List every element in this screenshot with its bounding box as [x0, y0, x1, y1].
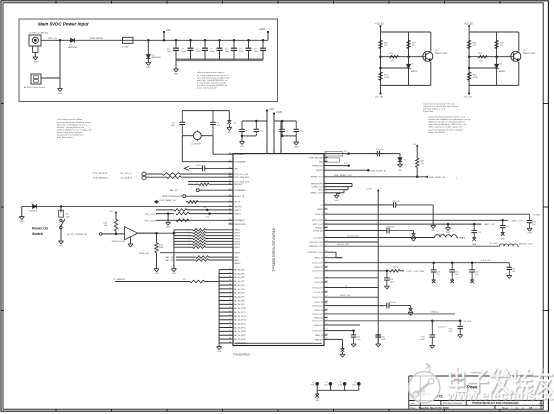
svg-text:LDO4_IN: LDO4_IN	[314, 292, 323, 294]
svg-text:45: 45	[229, 160, 231, 162]
svg-text:C16 1uF: C16 1uF	[392, 201, 400, 203]
svg-text:TP3: TP3	[203, 207, 206, 209]
svg-text:PWRPAD/GND: PWRPAD/GND	[235, 342, 249, 345]
svg-text:TP_WAKEUP: TP_WAKEUP	[113, 278, 126, 281]
svg-text:VMAIN: VMAIN	[459, 237, 466, 240]
svg-text:F1 3A: F1 3A	[123, 46, 129, 49]
svg-text:24: 24	[229, 322, 231, 324]
svg-text:power over targeted up there i: power over targeted up there is the data	[428, 128, 463, 131]
svg-text:+VDDQ_L: +VDDQ_L	[430, 311, 440, 313]
svg-text:R36: R36	[187, 247, 190, 249]
svg-text:VINLDO7: VINLDO7	[314, 325, 323, 327]
svg-text:D6: D6	[404, 159, 406, 161]
svg-text:LDO06_B2: LDO06_B2	[313, 230, 324, 232]
svg-text:GND: GND	[294, 146, 299, 148]
svg-text:R52 0: R52 0	[393, 267, 398, 269]
svg-text:ISET: ISET	[318, 190, 323, 192]
svg-text:on chip design. Note this, us: on chip design. Note this, usually	[197, 81, 226, 84]
svg-text:R31: R31	[187, 233, 190, 235]
svg-text:TP4: TP4	[206, 217, 209, 219]
svg-text:AD_IN_GP9: AD_IN_GP9	[234, 303, 244, 306]
svg-text:GND: GND	[154, 273, 159, 275]
svg-text:R32: R32	[187, 235, 190, 237]
svg-text:VDET1: VDET1	[234, 210, 241, 212]
svg-text:GND: GND	[446, 232, 451, 234]
svg-text:Sheet: Sheet	[502, 407, 508, 410]
svg-text:BAS16: BAS16	[411, 70, 418, 73]
svg-text:Date:: Date:	[411, 407, 417, 410]
svg-text:LDO7_OUT: LDO7_OUT	[312, 321, 323, 323]
svg-text:18: 18	[229, 299, 231, 301]
svg-text:29: 29	[229, 341, 231, 343]
svg-text:VINLDO: VINLDO	[315, 227, 323, 229]
svg-text:GND: GND	[501, 239, 506, 241]
svg-text:9: 9	[273, 151, 274, 153]
svg-text:GND: GND	[20, 221, 25, 223]
svg-text:C20: C20	[532, 222, 535, 224]
svg-text:GND: GND	[174, 73, 179, 75]
svg-text:C31: C31	[421, 337, 424, 339]
svg-text:LDO8_OUT: LDO8_OUT	[312, 331, 323, 333]
svg-text:VCC_B1: VCC_B1	[375, 97, 384, 99]
svg-text:17: 17	[229, 295, 231, 297]
svg-text:www.elecfans.com: www.elecfans.com	[446, 387, 554, 402]
svg-text:VINLDO2: VINLDO2	[314, 267, 323, 269]
svg-text:TP5: TP5	[344, 151, 347, 153]
svg-text:5VDC_IN: 5VDC_IN	[48, 38, 57, 40]
svg-text:ISINK2: ISINK2	[234, 263, 240, 265]
svg-text:C13: C13	[299, 130, 302, 132]
svg-text:AD_IN_GP17: AD_IN_GP17	[234, 334, 245, 337]
svg-text:LOWBMAIN: LOWBMAIN	[234, 189, 246, 192]
svg-text:TP6: TP6	[344, 163, 347, 165]
svg-text:GND: GND	[240, 146, 245, 148]
svg-text:21: 21	[229, 311, 231, 313]
svg-text:2: 2	[191, 188, 192, 190]
svg-text:+1.2V_O: +1.2V_O	[438, 327, 446, 329]
svg-text:Main 5VDC Power Input: Main 5VDC Power Input	[38, 22, 89, 27]
svg-text:PWRONSLEEP: PWRONSLEEP	[309, 157, 324, 159]
svg-text:C11: C11	[259, 130, 262, 132]
svg-text:GPIO5: GPIO5	[234, 241, 240, 243]
svg-text:R17: R17	[183, 279, 186, 281]
svg-text:10uF: 10uF	[239, 51, 244, 53]
svg-text:26: 26	[229, 330, 231, 332]
svg-text:WLED_FB: WLED_FB	[139, 253, 149, 255]
svg-text:SPACER: SPACER	[315, 338, 324, 341]
svg-text:BAT2: BAT2	[234, 259, 239, 262]
svg-text:20: 20	[229, 307, 231, 309]
svg-text:5VBK PWRIN: 5VBK PWRIN	[90, 38, 103, 40]
svg-text:prior, then supplies: prior, then supplies	[57, 136, 73, 139]
svg-text:be at any supply point so that: be at any supply point so that the at	[197, 74, 229, 77]
svg-text:LDO4_OUT: LDO4_OUT	[312, 297, 323, 299]
svg-text:11: 11	[229, 272, 231, 274]
svg-text:Tuesday, March 23, 2010: Tuesday, March 23, 2010	[419, 406, 450, 410]
svg-text:this takes on polarity; ESR/DK: this takes on polarity; ESR/DK, the	[197, 84, 229, 87]
svg-text:GPIO2_B: GPIO2_B	[314, 258, 323, 260]
svg-text:9: 9	[266, 151, 267, 153]
svg-text:dflt) how a baseline; it; this: dflt) how a baseline; it; this portion (…	[428, 121, 465, 124]
svg-text:R35: R35	[187, 244, 190, 246]
svg-text:16: 16	[529, 406, 532, 410]
svg-text:13: 13	[229, 280, 231, 282]
svg-text:10: 10	[229, 268, 231, 270]
svg-text:SW_B3_+1.8V: SW_B3_+1.8V	[519, 244, 533, 246]
svg-text:of gain time: of gain time	[423, 110, 433, 113]
svg-text:AD_IN_GP13: AD_IN_GP13	[234, 319, 245, 322]
svg-text:L2_SW_B: L2_SW_B	[314, 237, 324, 239]
svg-text:AD_IN_GP7: AD_IN_GP7	[234, 295, 244, 298]
svg-text:PWR_SLEEP_IN: PWR_SLEEP_IN	[371, 170, 387, 172]
svg-text:R7: R7	[163, 171, 165, 173]
svg-text:25: 25	[229, 326, 231, 328]
svg-text:10.0K: 10.0K	[473, 77, 479, 79]
svg-text:ISINK1: ISINK1	[234, 253, 240, 255]
svg-text:with 10uF; 100uF ATTACH B.C. a: with 10uF; 100uF ATTACH B.C. at	[197, 79, 228, 82]
svg-text:PG2: PG2	[324, 385, 328, 387]
svg-text:C26: C26	[475, 271, 478, 273]
svg-text:GND: GND	[398, 170, 403, 172]
svg-text:LDO1_OUT: LDO1_OUT	[312, 263, 323, 265]
svg-text:RESET_IN: RESET_IN	[234, 196, 245, 198]
svg-text:SPEEDTOPS: SPEEDTOPS	[311, 183, 324, 185]
svg-text:C12: C12	[285, 130, 288, 132]
svg-text:10uF: 10uF	[196, 51, 201, 53]
svg-text:PWRFAULT: PWRFAULT	[234, 219, 246, 222]
svg-text:+V_3V3: +V_3V3	[533, 214, 541, 216]
svg-text:R9: R9	[196, 182, 198, 184]
svg-text:MBRS340: MBRS340	[152, 57, 162, 59]
svg-text:INSTRUMENTS: INSTRUMENTS	[411, 393, 431, 397]
svg-text:C32: C32	[356, 336, 359, 338]
svg-text:RESET: RESET	[316, 170, 323, 172]
svg-text:GPIO7: GPIO7	[234, 247, 240, 249]
svg-text:VRTC_OUT: VRTC_OUT	[312, 220, 324, 222]
svg-text:AD_IN_GP11: AD_IN_GP11	[234, 311, 245, 314]
svg-text:+5V: +5V	[166, 28, 171, 32]
svg-text:BAT_TS1: BAT_TS1	[165, 256, 174, 259]
svg-text:C15 1uF: C15 1uF	[376, 149, 384, 151]
svg-text:10uF: 10uF	[225, 51, 230, 53]
svg-text:uses, when guided bring - THE: uses, when guided bring - THE DCDCs - th…	[428, 123, 466, 126]
svg-text:100k: 100k	[159, 247, 163, 249]
svg-text:10.0K: 10.0K	[384, 77, 390, 79]
svg-text:AD_IN_GP6: AD_IN_GP6	[234, 292, 244, 295]
svg-text:HSLEEP: HSLEEP	[234, 184, 243, 186]
svg-text:PG3: PG3	[338, 385, 342, 387]
svg-text:10uF: 10uF	[167, 51, 172, 53]
svg-text:recovery; device was shutdown: recovery; device was shutdown is when	[57, 121, 91, 124]
svg-text:+VL_1V8: +VL_1V8	[463, 321, 472, 323]
svg-text:PWR_RESET_IN: PWR_RESET_IN	[429, 177, 446, 179]
svg-text:27: 27	[229, 334, 231, 336]
svg-text:L1 6800uH: L1 6800uH	[191, 144, 201, 146]
svg-text:BAT1: BAT1	[234, 256, 239, 259]
svg-text:+VIN: +VIN	[276, 110, 282, 114]
svg-text:BAT_TS2: BAT_TS2	[165, 259, 174, 262]
svg-text:PB_IN: PB_IN	[234, 202, 240, 204]
svg-text:46: 46	[229, 153, 231, 155]
svg-text:AD_IN_GP15: AD_IN_GP15	[234, 326, 245, 329]
svg-text:LDODCDC_OUT: LDODCDC_OUT	[308, 252, 324, 254]
svg-text:J1 5VDC at 3A/2.5A: J1 5VDC at 3A/2.5A	[29, 32, 48, 35]
svg-text:It has been noted whenever, th: It has been noted whenever, that the usi…	[428, 116, 465, 119]
svg-text:Barrier that SEVRC: Barrier that SEVRC	[428, 131, 445, 134]
svg-text:(D) SPI_CS21/S3_INT: (D) SPI_CS21/S3_INT	[67, 234, 88, 236]
svg-text:AD_IN_GP10: AD_IN_GP10	[234, 307, 245, 310]
svg-text:balance and when the arc charg: balance and when the arc charging - the	[57, 128, 92, 131]
svg-text:L2 2.2uH: L2 2.2uH	[436, 234, 445, 236]
svg-text:R30: R30	[187, 230, 190, 232]
svg-text:32: 32	[229, 222, 231, 224]
svg-text:ONOFF: ONOFF	[234, 206, 242, 208]
svg-text:9: 9	[280, 151, 281, 153]
svg-text:AD_IN_GP3: AD_IN_GP3	[234, 280, 244, 283]
svg-text:DPPM_OUT: DPPM_OUT	[312, 187, 324, 189]
svg-text:C27: C27	[512, 269, 515, 271]
svg-text:PWRGOOD: PWRGOOD	[312, 166, 323, 168]
svg-text:PWR_RESET_OUT: PWR_RESET_OUT	[334, 175, 353, 177]
svg-text:GND: GND	[58, 93, 63, 95]
svg-text:Power On: Power On	[32, 227, 48, 231]
svg-text:TPS65070RSLREVM516: TPS65070RSLREVM516	[271, 228, 276, 272]
svg-text:VINLDO6: VINLDO6	[314, 317, 323, 319]
svg-text:PUSH_B: PUSH_B	[29, 211, 38, 213]
svg-text:+5V: +5V	[109, 211, 113, 213]
svg-text:always be the for rectified fo: always be the for rectified force	[57, 134, 84, 137]
svg-text:22: 22	[229, 314, 231, 316]
svg-text:VCC_B1: VCC_B1	[464, 97, 473, 99]
svg-text:AD_IN_GP1: AD_IN_GP1	[234, 272, 244, 275]
svg-text:GND: GND	[59, 245, 64, 247]
svg-text:+VINT_OUT: +VINT_OUT	[484, 224, 496, 226]
svg-text:GPIO6: GPIO6	[234, 244, 240, 246]
svg-text:VBKP_B: VBKP_B	[315, 335, 323, 337]
svg-text:LDO3_OUT: LDO3_OUT	[312, 287, 323, 289]
svg-text:LDO3_IN: LDO3_IN	[314, 282, 323, 284]
svg-text:AD_IN_GP2: AD_IN_GP2	[234, 276, 244, 279]
svg-text:C28: C28	[390, 279, 393, 281]
svg-text:C23 10uF: C23 10uF	[386, 227, 396, 229]
svg-text:LDO6_OUT: LDO6_OUT	[312, 314, 323, 316]
svg-text:Alt 5VDC Power Source: Alt 5VDC Power Source	[24, 86, 46, 89]
svg-text:C33: C33	[381, 336, 384, 338]
svg-text:AD_IN_GP5: AD_IN_GP5	[234, 288, 244, 291]
svg-text:C14 1uF: C14 1uF	[196, 165, 204, 167]
svg-text:+VO_B1: +VO_B1	[375, 24, 384, 26]
svg-text:+1.8V_LDO: +1.8V_LDO	[480, 260, 491, 262]
svg-text:AD_IN_GP12: AD_IN_GP12	[234, 315, 245, 318]
svg-text:Circuit intent to ensure offli: Circuit intent to ensure offline	[57, 118, 82, 121]
svg-text:10uF: 10uF	[254, 51, 259, 53]
svg-text:AD_IN_GP4: AD_IN_GP4	[234, 284, 244, 287]
svg-text:16: 16	[229, 291, 231, 293]
svg-text:10uF: 10uF	[181, 51, 186, 53]
svg-text:DCDC1FB: DCDC1FB	[313, 154, 323, 156]
svg-text:15: 15	[229, 287, 231, 289]
svg-text:GND: GND	[472, 244, 477, 246]
svg-text:GPADC_OUT: GPADC_OUT	[310, 192, 323, 195]
svg-text:AD_IN_GP0: AD_IN_GP0	[234, 268, 244, 271]
svg-text:AD_IN_GP18: AD_IN_GP18	[234, 338, 245, 341]
svg-text:GND: GND	[146, 67, 151, 69]
svg-text:LOWPWR_OUT: LOWPWR_OUT	[308, 246, 323, 248]
svg-text:LDO6_IN: LDO6_IN	[314, 310, 323, 312]
svg-text:TPS65070RSLR: TPS65070RSLR	[233, 355, 250, 357]
svg-text:VDCDC2_OUT: VDCDC2_OUT	[309, 242, 323, 244]
svg-text:19: 19	[229, 303, 231, 305]
svg-text:I2C_SCL_S: I2C_SCL_S	[121, 173, 133, 175]
svg-text:10k: 10k	[421, 163, 424, 165]
svg-text:LDO5_OUT: LDO5_OUT	[312, 306, 323, 308]
svg-text:2: 2	[456, 178, 457, 180]
svg-text:12: 12	[229, 276, 231, 278]
svg-text:SYS_SDA/SDIO: SYS_SDA/SDIO	[93, 177, 109, 180]
svg-text:input side of the power supply: input side of the power supply a data	[197, 76, 230, 79]
svg-text:RESET/PWRSLEEPS: RESET/PWRSLEEPS	[162, 196, 183, 198]
svg-text:PG1: PG1	[311, 385, 315, 387]
svg-text:VINT_OUT: VINT_OUT	[313, 224, 324, 226]
svg-text:VSYS_B: VSYS_B	[315, 214, 323, 216]
svg-text:power rated at greater: power rated at greater	[197, 87, 217, 90]
svg-text:GND: GND	[166, 227, 171, 229]
svg-text:PAC_IN: PAC_IN	[170, 189, 178, 192]
svg-text:VDET2: VDET2	[234, 214, 241, 216]
svg-text:MBRS340: MBRS340	[68, 47, 78, 49]
svg-text:Switch: Switch	[32, 232, 43, 236]
svg-text:GPIO3: GPIO3	[234, 236, 240, 238]
svg-text:C30: C30	[449, 329, 452, 331]
svg-text:R34: R34	[187, 241, 190, 243]
svg-text:LDO5_IN: LDO5_IN	[314, 302, 323, 304]
svg-text:GND: GND	[315, 400, 320, 402]
svg-text:GPIO1: GPIO1	[234, 230, 240, 232]
svg-text:L3 2.2uH: L3 2.2uH	[489, 243, 498, 245]
svg-text:SYS_SCL/SCK: SYS_SCL/SCK	[93, 173, 108, 175]
svg-text:RESET_OUT: RESET_OUT	[311, 177, 324, 179]
svg-text:baseline - causing driver for: baseline - causing driver for the	[57, 126, 84, 129]
svg-text:GND: GND	[431, 230, 436, 232]
svg-text:MMBT2907A: MMBT2907A	[435, 52, 448, 55]
svg-text:LDO2_OUT: LDO2_OUT	[312, 271, 323, 273]
svg-text:VIN: VIN	[234, 168, 238, 170]
svg-text:+VRTC_OUT: +VRTC_OUT	[510, 220, 523, 222]
svg-text:PWC_RESET_IN: PWC_RESET_IN	[160, 200, 176, 202]
svg-text:PWRDOWN: PWRDOWN	[234, 224, 246, 226]
svg-text:VLDO2_OUT: VLDO2_OUT	[347, 236, 360, 238]
svg-text:GPIO2: GPIO2	[234, 233, 240, 235]
svg-text:GND: GND	[217, 351, 222, 353]
svg-text:I2C_SDA_S: I2C_SDA_S	[121, 177, 133, 180]
svg-text:DCINMAINF: DCINMAINF	[234, 161, 246, 164]
svg-text:SN74LVC1G07: SN74LVC1G07	[112, 241, 127, 243]
svg-text:10k: 10k	[104, 225, 107, 227]
svg-text:23: 23	[229, 318, 231, 320]
svg-text:TP7: TP7	[506, 227, 509, 229]
svg-text:BAS16: BAS16	[499, 70, 506, 73]
svg-text:C10: C10	[245, 130, 248, 132]
svg-text:+5V: +5V	[269, 107, 274, 111]
svg-text:C25: C25	[455, 271, 458, 273]
svg-text:C22: C22	[478, 232, 481, 234]
svg-text:connect next; pulse, low input: connect next; pulse, low input	[57, 131, 83, 134]
svg-text:RTC_OUT2: RTC_OUT2	[145, 220, 157, 222]
svg-text:VINB1: VINB1	[317, 209, 324, 211]
svg-text:power cards by on charge suppl: power cards by on charge supplies; the	[428, 126, 462, 129]
svg-text:GPIO4: GPIO4	[234, 238, 241, 240]
svg-text:AD_IN_GP16: AD_IN_GP16	[234, 330, 245, 333]
svg-text:R33: R33	[187, 238, 190, 240]
svg-text:MMBT2907A: MMBT2907A	[523, 52, 536, 55]
svg-text:SW: SW	[66, 217, 69, 219]
svg-text:GND: GND	[172, 273, 177, 275]
svg-text:+5VB: +5VB	[366, 189, 372, 191]
svg-text:SYS_SDA_SDO: SYS_SDA_SDO	[234, 176, 249, 179]
svg-text:AD_IN_GP14: AD_IN_GP14	[234, 322, 245, 325]
svg-text:GND: GND	[527, 233, 532, 235]
svg-text:10uF: 10uF	[210, 51, 215, 53]
svg-text:+VCC_+3.3V_USB: +VCC_+3.3V_USB	[406, 271, 424, 273]
svg-text:GND: GND	[227, 132, 232, 134]
svg-text:C24: C24	[436, 271, 439, 273]
svg-text:14: 14	[229, 284, 231, 286]
svg-text:RTC_OUT: RTC_OUT	[145, 214, 156, 216]
svg-text:converter be enabled (a low pe: converter be enabled (a low performance …	[428, 118, 470, 121]
svg-text:input pins, and dropping much: input pins, and dropping much as a	[57, 123, 88, 126]
svg-text:PG4: PG4	[352, 385, 356, 387]
svg-text:C29 1uF: C29 1uF	[388, 302, 396, 304]
svg-text:28: 28	[229, 338, 231, 340]
svg-text:+5VA: +5VA	[259, 27, 265, 31]
svg-text:GND: GND	[33, 61, 38, 63]
svg-text:sufficient capacitance needs t: sufficient capacitance needs to	[197, 71, 225, 74]
svg-text:VCC_SDA_VDD: VCC_SDA_VDD	[234, 180, 250, 183]
svg-text:VLDO_B: VLDO_B	[315, 278, 324, 280]
svg-text:DCINMAIN: DCINMAIN	[234, 153, 245, 156]
svg-text:GND: GND	[335, 200, 340, 202]
svg-text:AD_IN_GP8: AD_IN_GP8	[234, 299, 244, 302]
